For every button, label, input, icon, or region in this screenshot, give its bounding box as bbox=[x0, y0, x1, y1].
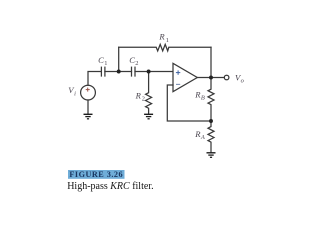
output node junction dot bbox=[209, 76, 213, 80]
wire C1 to C2 bbox=[105, 71, 132, 73]
wire riser node A to R1 bbox=[118, 47, 120, 71]
svg-text:R: R bbox=[158, 32, 165, 42]
svg-text:FIGURE 3.26: FIGURE 3.26 bbox=[69, 170, 123, 179]
ground under Vi bbox=[84, 114, 93, 119]
op-amp plus input symbol bbox=[176, 70, 180, 74]
svg-text:1: 1 bbox=[104, 60, 107, 67]
resistor RA bbox=[208, 121, 214, 152]
feedback node junction dot bbox=[209, 119, 213, 123]
terminal Vo bbox=[224, 75, 229, 80]
wire R1 right to output node bbox=[210, 47, 212, 77]
resistor R1 bbox=[119, 44, 211, 51]
node B junction dot bbox=[147, 70, 151, 74]
svg-text:High-pass KRC filter.: High-pass KRC filter. bbox=[67, 181, 153, 192]
node A junction dot bbox=[117, 70, 121, 74]
svg-text:2: 2 bbox=[142, 95, 145, 102]
source plus symbol bbox=[86, 88, 90, 92]
svg-text:o: o bbox=[241, 78, 244, 85]
source Vi bbox=[81, 85, 96, 100]
svg-text:B: B bbox=[201, 95, 205, 102]
wire C2 to op-amp + input bbox=[135, 71, 173, 73]
capacitor C2 bbox=[131, 67, 133, 76]
op-amp minus input symbol bbox=[176, 83, 180, 85]
svg-text:R: R bbox=[135, 90, 142, 100]
svg-text:i: i bbox=[74, 90, 76, 97]
svg-text:1: 1 bbox=[166, 37, 169, 44]
ground under RA bbox=[207, 153, 216, 158]
resistor RB bbox=[208, 78, 214, 122]
resistor R2 bbox=[146, 72, 152, 114]
wire input top from Vi to C1 bbox=[88, 72, 101, 86]
wire op-amp output to Vo bbox=[197, 77, 224, 79]
op-amp U1 bbox=[173, 63, 197, 91]
svg-text:C: C bbox=[98, 55, 104, 65]
ground under R2 bbox=[144, 114, 153, 119]
wire op-amp minus input feedback bbox=[167, 85, 211, 121]
capacitor C1 bbox=[100, 67, 102, 76]
wire Vi to ground bbox=[87, 100, 89, 114]
figure caption highlight box bbox=[68, 170, 125, 179]
svg-text:2: 2 bbox=[135, 60, 138, 67]
svg-text:A: A bbox=[200, 134, 205, 141]
